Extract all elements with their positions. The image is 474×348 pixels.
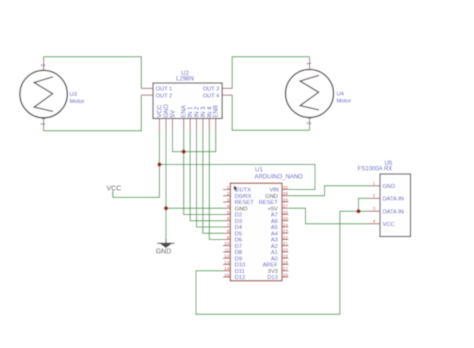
- U1 right pin stubs 30-16: [282, 190, 288, 278]
- svg-text:3: 3: [373, 206, 376, 211]
- svg-text:IN 1: IN 1: [188, 106, 194, 118]
- svg-text:18: 18: [283, 260, 289, 265]
- pin 2 DATA IN: [368, 197, 380, 199]
- svg-text:VCC: VCC: [383, 222, 395, 228]
- pin VCC: [158, 119, 160, 131]
- VCC net label: [107, 185, 122, 197]
- pin IN 4: [208, 119, 210, 131]
- svg-text:GND: GND: [164, 104, 170, 118]
- svg-text:4: 4: [373, 218, 376, 223]
- pin OUT 1: [141, 87, 153, 89]
- svg-text:4: 4: [227, 204, 230, 209]
- svg-text:OUT 3: OUT 3: [203, 87, 219, 93]
- svg-text:1: 1: [39, 123, 45, 126]
- svg-text:8: 8: [227, 229, 230, 234]
- svg-text:VIN: VIN: [269, 188, 278, 194]
- svg-text:D8: D8: [235, 250, 242, 256]
- junction node VCC: [157, 163, 161, 167]
- svg-text:12: 12: [224, 254, 230, 259]
- pin IN 2: [196, 119, 198, 131]
- svg-text:U4: U4: [337, 92, 345, 98]
- svg-text:Motor: Motor: [337, 99, 352, 105]
- pin IN 1: [189, 119, 191, 131]
- wire VCC net: U2 VCC pin down to VCC label corner: [113, 131, 159, 198]
- ground: [156, 239, 175, 256]
- svg-text:U3: U3: [70, 92, 77, 98]
- svg-text:D5: D5: [235, 231, 242, 237]
- motor U4: [286, 57, 352, 131]
- svg-text:26: 26: [283, 210, 289, 215]
- svg-text:RESET: RESET: [235, 200, 254, 206]
- wire U5 pin2 DATA IN to junction: [359, 198, 369, 211]
- wire GND net branch to U1 GND: [166, 207, 223, 209]
- svg-text:A1: A1: [271, 250, 278, 256]
- svg-text:3V3: 3V3: [268, 269, 278, 275]
- svg-text:D10: D10: [235, 263, 245, 269]
- svg-text:FS1000A RX: FS1000A RX: [358, 167, 393, 173]
- pin IN 3: [202, 119, 204, 131]
- pin GND: [165, 119, 167, 131]
- svg-text:D2: D2: [235, 213, 242, 219]
- svg-text:A5: A5: [271, 225, 278, 231]
- svg-text:2: 2: [305, 122, 311, 125]
- svg-text:28: 28: [283, 197, 289, 202]
- svg-text:GND: GND: [235, 206, 248, 212]
- svg-text:Motor: Motor: [70, 99, 85, 105]
- svg-text:IN 4: IN 4: [207, 106, 213, 118]
- svg-text:D6: D6: [235, 238, 242, 244]
- svg-text:11: 11: [225, 247, 230, 252]
- svg-text:30: 30: [283, 185, 289, 190]
- junction node DATA IN: [357, 209, 361, 213]
- wire U1 +5V to U5 pin4 VCC: [288, 208, 368, 223]
- svg-text:+5V: +5V: [268, 206, 278, 212]
- pin OUT 4: [222, 94, 232, 96]
- svg-text:GND: GND: [265, 194, 278, 200]
- junction node GND: [164, 206, 168, 210]
- wire IN1 to U1 D3: [190, 131, 223, 221]
- wire ENA to U1 D2: [184, 131, 223, 215]
- svg-text:16: 16: [283, 272, 289, 277]
- svg-text:3: 3: [227, 197, 230, 202]
- wire U3 pin2 to U2 OUT1: [44, 57, 142, 89]
- svg-text:21: 21: [283, 241, 289, 246]
- U1 right pins VIN..D13: [259, 185, 289, 281]
- svg-text:10: 10: [224, 241, 230, 246]
- wire U3 pin1 to U2 OUT2: [44, 95, 142, 131]
- wire U1 GND right to U5 pin1 GND: [288, 186, 368, 196]
- cursor: [234, 186, 238, 191]
- svg-text:ENA: ENA: [182, 105, 188, 117]
- junction node ENA/ENB: [182, 150, 186, 154]
- svg-text:RESET: RESET: [259, 200, 278, 206]
- pin ENA: [183, 119, 185, 131]
- pin 5V: [172, 119, 174, 131]
- svg-text:U1: U1: [255, 166, 263, 173]
- wire 5V to ENA/ENB tie: [173, 131, 216, 152]
- U1 left pin stubs 1-15: [223, 190, 230, 278]
- svg-text:ENB: ENB: [214, 105, 220, 117]
- U1 left pin names D1/TX,D0/RX,RESET,GND,D2-D12: [235, 188, 254, 282]
- pin OUT 3: [222, 87, 232, 89]
- pin OUT 2: [141, 94, 153, 96]
- svg-text:15: 15: [224, 272, 230, 277]
- svg-text:IN 3: IN 3: [201, 106, 207, 118]
- svg-text:20: 20: [283, 247, 289, 252]
- U1 right pin numbers 30-16: [283, 185, 289, 277]
- pin ENB: [215, 119, 217, 131]
- svg-text:D9: D9: [235, 256, 242, 262]
- svg-text:IN 2: IN 2: [195, 106, 201, 118]
- svg-text:D7: D7: [235, 244, 242, 250]
- svg-text:29: 29: [283, 191, 289, 196]
- svg-text:D11: D11: [235, 269, 245, 275]
- svg-text:ARDUINO_NANO: ARDUINO_NANO: [255, 174, 304, 180]
- svg-text:VCC: VCC: [107, 185, 122, 192]
- svg-text:OUT 2: OUT 2: [156, 93, 172, 99]
- svg-text:D13: D13: [267, 275, 277, 281]
- svg-text:DATA IN: DATA IN: [383, 209, 404, 215]
- svg-text:A7: A7: [271, 213, 278, 219]
- wire IN4 to U1 D6: [209, 131, 223, 240]
- svg-text:GND: GND: [383, 184, 396, 190]
- svg-text:D1/TX: D1/TX: [235, 188, 251, 194]
- wire U2 OUT3 to U4 pin1: [232, 57, 309, 89]
- svg-text:14: 14: [224, 266, 230, 271]
- wire IN2 to U1 D4: [197, 131, 224, 228]
- svg-text:1: 1: [373, 181, 376, 186]
- IC U2 L298N: [141, 71, 232, 131]
- svg-text:2: 2: [39, 64, 45, 67]
- svg-text:L298N: L298N: [176, 77, 194, 83]
- pin 4 VCC: [368, 223, 380, 225]
- svg-text:7: 7: [227, 222, 230, 227]
- svg-text:1: 1: [305, 62, 311, 65]
- svg-text:19: 19: [283, 254, 289, 259]
- IC U5 FS1000A RX: [358, 161, 411, 237]
- svg-text:1: 1: [227, 185, 230, 190]
- svg-text:23: 23: [283, 229, 289, 234]
- pin 3 DATA IN: [368, 210, 380, 212]
- U1 left pins D1/TX..D12: [223, 185, 254, 281]
- svg-text:AREF: AREF: [263, 263, 279, 269]
- svg-text:D12: D12: [235, 275, 245, 281]
- svg-text:A2: A2: [271, 244, 278, 250]
- wire U2 OUT4 to U4 pin2: [232, 95, 309, 130]
- wire VCC net branch to U1 VIN: [159, 165, 315, 190]
- svg-text:2: 2: [373, 193, 376, 198]
- svg-text:A0: A0: [271, 256, 278, 262]
- IC U1 ARDUINO_NANO: [230, 166, 303, 280]
- svg-text:6: 6: [227, 216, 230, 221]
- wire GND net: U2 GND pin down to ground symbol: [165, 131, 167, 239]
- svg-text:A4: A4: [271, 231, 278, 237]
- svg-text:2: 2: [227, 191, 230, 196]
- svg-text:OUT 4: OUT 4: [203, 93, 219, 99]
- svg-text:D4: D4: [235, 225, 242, 231]
- svg-text:24: 24: [283, 222, 289, 227]
- wire IN3 to U1 D5: [203, 131, 223, 234]
- svg-text:5V: 5V: [171, 110, 177, 117]
- svg-text:OUT 1: OUT 1: [156, 87, 172, 93]
- svg-text:17: 17: [283, 266, 289, 271]
- U1 right pin names VIN,GND,RESET,+5V,A7-A0,AREF,3V3,D13: [259, 188, 279, 282]
- svg-text:D3: D3: [235, 219, 242, 225]
- svg-text:A3: A3: [271, 238, 278, 244]
- svg-text:A6: A6: [271, 219, 278, 225]
- svg-text:DATA IN: DATA IN: [383, 197, 404, 203]
- svg-text:GND: GND: [156, 248, 172, 255]
- svg-text:5: 5: [227, 210, 230, 215]
- svg-text:13: 13: [224, 260, 230, 265]
- svg-text:VCC: VCC: [157, 104, 163, 117]
- svg-text:22: 22: [283, 235, 289, 240]
- pin 1 GND: [368, 185, 380, 187]
- svg-text:25: 25: [283, 216, 289, 221]
- svg-text:27: 27: [283, 204, 289, 209]
- svg-text:9: 9: [227, 235, 230, 240]
- U1 left pin numbers 1-15: [224, 185, 230, 277]
- svg-text:D0/RX: D0/RX: [235, 194, 252, 200]
- wire U5 pin3 DATA IN to U1 D11: [196, 211, 368, 314]
- motor U3: [20, 57, 85, 131]
